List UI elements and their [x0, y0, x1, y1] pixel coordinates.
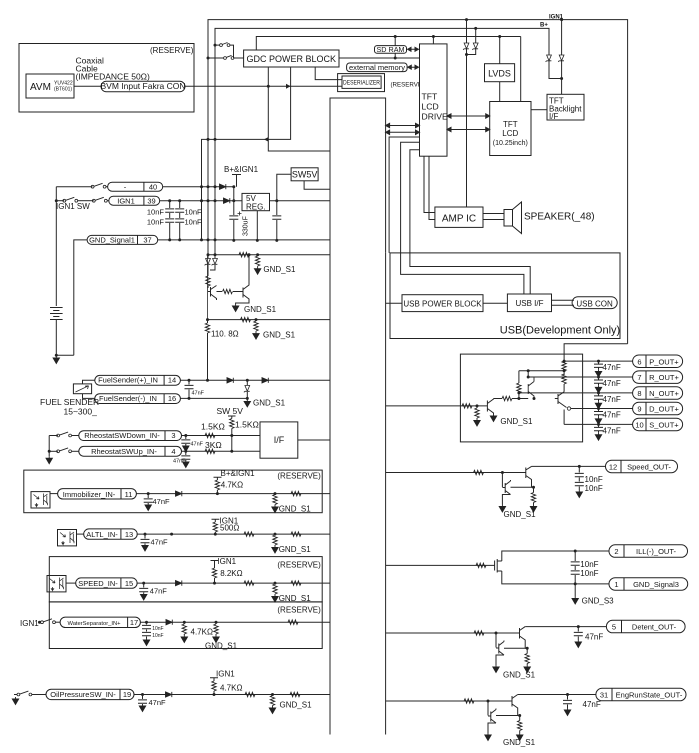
svg-text:19: 19: [123, 690, 131, 699]
pin 37 connector: [87, 235, 158, 244]
47nF cap between fuel wires: [188, 380, 190, 398]
svg-text:GDC POWER BLOCK: GDC POWER BLOCK: [247, 54, 337, 64]
battery to gnd: [56, 320, 74, 356]
LVDS box: [485, 64, 515, 82]
caps 10nF speed: [578, 465, 581, 468]
fuse B+ branch: [214, 44, 217, 47]
source wire down: [502, 571, 609, 584]
svg-text:(RESERVE): (RESERVE): [277, 606, 321, 615]
input wire: [386, 700, 512, 702]
pin 6 connector: [633, 355, 683, 368]
rails below gnd line: [208, 240, 215, 254]
filter caps column 2: [179, 201, 181, 240]
svg-text:IGN1: IGN1: [216, 670, 235, 679]
arrow busbox / TFT drive 2: [386, 130, 420, 134]
series resistor row17: [288, 620, 298, 624]
svg-text:AMP IC: AMP IC: [442, 214, 476, 225]
svg-text:IGN1: IGN1: [117, 196, 135, 205]
bus box right edge lower: [385, 253, 387, 735]
pin 5 connector: [606, 620, 685, 633]
SPEED wire: [137, 582, 330, 584]
TFT LCD DRIVE box: [420, 44, 448, 156]
4.7K resistor row17: [183, 621, 186, 624]
svg-text:SW5V: SW5V: [292, 170, 318, 180]
usb if to usb con double: [552, 300, 575, 305]
svg-text:B+&IGN1: B+&IGN1: [221, 469, 256, 478]
USB outer box: [390, 253, 620, 339]
ALTL wire: [137, 533, 330, 535]
wire TFT LCD to backlight: [531, 109, 547, 111]
output wire to pin 12: [532, 465, 606, 467]
svg-text:(IMPEDANCE 50Ω): (IMPEDANCE 50Ω): [76, 72, 151, 82]
caps 47nF S row: [597, 423, 600, 426]
svg-text:DRIVE: DRIVE: [422, 112, 449, 122]
svg-text:47nF: 47nF: [149, 698, 167, 707]
arrow TFT drive / TFT LCD 1: [447, 114, 490, 118]
water separator wire: [140, 621, 330, 623]
svg-text:external memory: external memory: [349, 63, 405, 72]
arrow busbox / TFT drive 1: [386, 123, 420, 127]
SD RAM stub to line: [394, 37, 396, 59]
svg-text:16: 16: [168, 394, 176, 403]
svg-text:TFT: TFT: [422, 92, 438, 102]
svg-text:FuelSender(+)_IN: FuelSender(+)_IN: [98, 376, 158, 385]
rheostat up wire: [182, 450, 261, 452]
cap 47nF detent: [577, 625, 580, 628]
series resistor row11: [291, 491, 301, 495]
pin 1 connector: [609, 578, 688, 591]
AVM box: [26, 74, 74, 98]
filter caps column 1: [169, 201, 171, 240]
I/F output wire: [298, 439, 330, 441]
pin 39 connector: [109, 196, 160, 205]
I/F box: [260, 422, 298, 458]
DESERIALIZER outer box: [338, 74, 385, 92]
GDC POWER BLOCK: [244, 50, 339, 67]
svg-text:47nF: 47nF: [585, 633, 603, 642]
switch row3: [49, 435, 58, 437]
svg-text:15~300_: 15~300_: [64, 407, 98, 417]
gnd stub row19: [271, 693, 274, 696]
PRND box: [460, 354, 582, 442]
transistor Q2 prnd: [528, 377, 534, 399]
47nF cap row15: [143, 583, 145, 593]
gnd signal1 wire: [158, 239, 330, 241]
svg-text:WaterSeparator_IN+: WaterSeparator_IN+: [67, 621, 121, 627]
input wire: [386, 564, 495, 566]
svg-text:Detent_OUT-: Detent_OUT-: [632, 623, 677, 632]
svg-text:ALTL_IN-: ALTL_IN-: [86, 530, 118, 539]
svg-text:GND_S1: GND_S1: [244, 305, 277, 314]
svg-text:(10.25inch): (10.25inch): [493, 140, 528, 147]
GDC gnd vertical 1: [268, 67, 330, 151]
arrow ext memory / TFT drive: [408, 65, 419, 69]
svg-text:37: 37: [143, 236, 151, 245]
resistor on line 319.6: [241, 317, 251, 321]
diode backlight IGN1: [558, 55, 564, 62]
svg-text:GND_S1: GND_S1: [500, 417, 533, 426]
diode on pin39 wire: [224, 198, 230, 203]
oil pressure wire: [134, 694, 330, 696]
svg-text:(BT601): (BT601): [54, 87, 72, 93]
series resistor row15a: [244, 581, 254, 585]
svg-text:3: 3: [171, 431, 175, 440]
diode backlight B+: [546, 55, 552, 62]
svg-text:47nF: 47nF: [603, 363, 621, 372]
svg-text:LCD: LCD: [502, 129, 518, 138]
svg-text:8.2KΩ: 8.2KΩ: [220, 569, 242, 578]
svg-text:N_OUT+: N_OUT+: [649, 389, 679, 398]
svg-text:3KΩ: 3KΩ: [205, 440, 222, 450]
svg-text:USB CON: USB CON: [576, 300, 613, 309]
svg-text:USB POWER BLOCK: USB POWER BLOCK: [403, 300, 482, 309]
svg-text:330uF: 330uF: [243, 216, 250, 236]
GDC to deserializer power: [315, 67, 342, 80]
svg-text:GND_S3: GND_S3: [582, 597, 615, 606]
svg-text:1.5KΩ: 1.5KΩ: [235, 420, 259, 430]
svg-text:SPEAKER(_48): SPEAKER(_48): [524, 212, 595, 223]
node on IGN1 rail: [560, 18, 563, 21]
svg-text:(RESERVE): (RESERVE): [150, 46, 194, 55]
external memory box: [347, 63, 408, 72]
series resistor row19a: [245, 692, 255, 696]
svg-text:FUEL SENDER: FUEL SENDER: [40, 397, 99, 407]
svg-text:47nF: 47nF: [191, 442, 204, 448]
svg-text:1: 1: [614, 580, 618, 589]
svg-text:GND_S1: GND_S1: [504, 510, 537, 519]
svg-text:REG.: REG.: [246, 203, 266, 212]
svg-text:4.7KΩ: 4.7KΩ: [221, 481, 243, 490]
svg-text:10nF: 10nF: [580, 569, 598, 578]
1.5K pullup resistor: [230, 419, 234, 429]
5V REG gnd stub: [256, 211, 258, 241]
transistor Q3 prnd: [555, 392, 567, 408]
switches gnd: [48, 436, 50, 457]
transistor Q1 engrun: [512, 695, 518, 716]
svg-text:DESERIALIZER: DESERIALIZER: [343, 81, 381, 87]
330uF cap: [233, 187, 235, 241]
svg-text:4: 4: [171, 447, 175, 456]
pin 2 connector: [609, 545, 688, 558]
input wire from bus: [386, 405, 488, 407]
TFT backlight box: [547, 94, 584, 120]
svg-text:47nF: 47nF: [583, 700, 601, 709]
input wire: [386, 632, 520, 634]
S row wire: [564, 423, 633, 425]
pin 8 connector: [633, 387, 683, 400]
svg-text:P_OUT+: P_OUT+: [649, 357, 679, 366]
caps 47nF P row: [597, 360, 600, 363]
diode on pin40 wire: [220, 184, 226, 189]
caps 47nF D row: [597, 407, 600, 410]
series resistor row15b: [291, 581, 301, 585]
collector line: [494, 398, 503, 400]
gnd stub on line 319.6: [255, 318, 258, 321]
wire B+ diode to backlight node: [549, 61, 562, 79]
switch row4: [49, 450, 58, 452]
svg-text:USB I/F: USB I/F: [515, 299, 543, 308]
GDC to TFT drive line: [339, 57, 420, 59]
feed from IGN1 rail: [564, 344, 628, 361]
P row wire: [564, 360, 633, 362]
arrow TFT drive / TFT LCD 2: [447, 127, 490, 131]
svg-text:10nF: 10nF: [585, 475, 603, 484]
SD RAM box: [375, 46, 407, 54]
svg-text:47nF: 47nF: [153, 497, 171, 506]
gnd stub on line 254.7: [256, 253, 259, 256]
line 319.6: [208, 319, 331, 321]
MOSFET: [495, 559, 502, 573]
svg-text:I/F: I/F: [549, 112, 558, 121]
pin39 wire to 5V REG: [160, 200, 242, 202]
AVM reserve outer box: [19, 44, 194, 113]
gnd stub row11: [274, 492, 277, 495]
line 254.7: [208, 254, 330, 256]
gnd stub row13: [274, 533, 277, 536]
transistor Q pair: [208, 286, 217, 301]
pulldown resistor row17: [215, 621, 218, 624]
svg-text:IGN1 SW: IGN1 SW: [56, 202, 90, 211]
cap 47nF engrun: [566, 693, 569, 696]
5V REG box: [242, 193, 270, 210]
speed reserve box: [49, 557, 322, 602]
gnd s3: [574, 584, 576, 597]
svg-text:10nF: 10nF: [585, 484, 603, 493]
diode row17: [166, 620, 172, 625]
svg-text:GND_S1: GND_S1: [205, 642, 238, 651]
svg-text:15: 15: [125, 579, 133, 588]
svg-text:47nF: 47nF: [150, 586, 168, 595]
fuel sender minus wire: [180, 397, 247, 399]
svg-text:4.7KΩ: 4.7KΩ: [191, 628, 213, 637]
svg-text:GND_Signal3: GND_Signal3: [633, 580, 679, 589]
optocoupler 11: [31, 492, 50, 508]
svg-text:IGN1: IGN1: [20, 619, 39, 628]
svg-text:GND_S1: GND_S1: [503, 671, 536, 680]
pin 12 connector: [606, 460, 678, 473]
SW5V box: [291, 168, 318, 181]
wire BVM to deserializer: [185, 85, 342, 87]
svg-text:Speed_OUT-: Speed_OUT-: [627, 463, 671, 472]
svg-text:40: 40: [149, 182, 157, 191]
svg-text:39: 39: [147, 196, 155, 205]
svg-text:RheostatSWDown_IN-: RheostatSWDown_IN-: [84, 431, 160, 440]
wire IGN1 to backlight diode: [561, 20, 563, 55]
svg-text:47nF: 47nF: [603, 395, 621, 404]
svg-text:14: 14: [168, 376, 176, 385]
pin 40 connector: [108, 182, 163, 191]
svg-text:1.5KΩ: 1.5KΩ: [201, 422, 225, 432]
arrow on BVM wire: [286, 84, 291, 89]
svg-text:TFT: TFT: [503, 120, 518, 129]
svg-text:RheostatSWUp_IN-: RheostatSWUp_IN-: [91, 447, 157, 456]
svg-text:SW 5V: SW 5V: [217, 406, 244, 416]
pin 19 connector: [46, 689, 134, 699]
BVM Input Fakra CON connector: [101, 81, 185, 91]
svg-text:LCD: LCD: [422, 102, 439, 112]
collector resistor chain: [563, 360, 565, 363]
arrow on reserve wire: [264, 137, 269, 142]
svg-text:(RESERVE): (RESERVE): [277, 472, 321, 481]
svg-text:D_OUT+: D_OUT+: [649, 405, 679, 414]
svg-text:B+: B+: [540, 23, 548, 29]
AMP to speaker wires: [483, 214, 504, 220]
svg-text:10nF: 10nF: [152, 626, 163, 632]
rheostat down wire: [182, 435, 261, 437]
svg-text:10nF: 10nF: [185, 218, 203, 227]
stub from label: [232, 175, 241, 187]
node backlight feed: [560, 77, 563, 80]
svg-text:31: 31: [600, 691, 608, 700]
zener to gnd on fuel line: [246, 380, 248, 385]
svg-text:7: 7: [637, 373, 641, 382]
switch row17: [39, 621, 42, 623]
caps row17: [146, 622, 148, 638]
svg-text:500Ω: 500Ω: [220, 524, 239, 533]
IGN1 SW row: [55, 199, 58, 202]
caps 47nF R row: [597, 376, 600, 379]
svg-text:R_OUT+: R_OUT+: [649, 373, 679, 382]
series resistor row13a: [244, 532, 254, 536]
caps 47nF N row: [597, 391, 600, 394]
3K resistor row4: [205, 449, 215, 453]
AMP feed diodes from rails: [465, 18, 468, 21]
svg-text:I/F: I/F: [274, 435, 285, 445]
svg-text:S_OUT+: S_OUT+: [649, 421, 679, 430]
output wire to pin 31: [518, 694, 596, 696]
R row wire: [528, 376, 632, 378]
svg-text:LVDS: LVDS: [488, 69, 511, 79]
base pulldown: [476, 406, 478, 408]
pin 31 connector: [596, 688, 686, 701]
pin 10 connector: [633, 418, 683, 431]
svg-text:GND_S1: GND_S1: [263, 331, 296, 340]
gnd signal1 left return: [74, 240, 87, 355]
svg-text:10nF: 10nF: [147, 218, 165, 227]
arrow SD RAM / TFT drive: [408, 47, 419, 51]
wire down to AMP IC: [466, 55, 468, 208]
SW5V bottom stub: [304, 181, 330, 189]
svg-text:10nF: 10nF: [152, 633, 163, 639]
rail3 from GDC top: [256, 37, 520, 51]
svg-text:GND_S1: GND_S1: [279, 505, 312, 514]
svg-text:IGN1: IGN1: [217, 557, 236, 566]
LVDS feed: [499, 37, 501, 64]
lower transistor Q2 engrun: [488, 701, 496, 733]
wire bus to usb power: [386, 302, 402, 304]
ground: [53, 356, 59, 364]
svg-text:OilPressureSW_IN-: OilPressureSW_IN-: [50, 690, 116, 699]
svg-text:9: 9: [637, 405, 641, 414]
svg-text:GND_S1: GND_S1: [279, 545, 312, 554]
svg-text:FuelSender(-)_IN: FuelSender(-)_IN: [99, 394, 157, 403]
speaker: [504, 210, 513, 227]
pin 11 connector: [50, 493, 58, 495]
svg-text:47nF: 47nF: [192, 391, 205, 397]
pin 15 connector: [66, 582, 76, 584]
svg-text:-: -: [124, 182, 127, 191]
output wire to pin 5: [525, 626, 606, 628]
5V REG output wire: [270, 200, 331, 202]
optocoupler 13: [58, 530, 77, 546]
diode row11: [176, 491, 182, 496]
wire into TFT backlight: [561, 61, 563, 94]
pin 13 connector: [77, 533, 84, 535]
transistor Q1 detent: [520, 627, 526, 649]
diode row15: [176, 581, 182, 586]
IGN1 rail top: [208, 20, 628, 344]
water separator reserve box: [49, 602, 322, 649]
svg-text:SD RAM: SD RAM: [377, 45, 405, 54]
svg-text:2: 2: [614, 547, 618, 556]
pin 4 connector: [79, 446, 182, 456]
47nF cap row3: [185, 436, 187, 445]
svg-text:(RESERVE): (RESERVE): [277, 561, 321, 570]
TFT LCD box: [490, 102, 531, 156]
svg-text:47nF: 47nF: [173, 459, 186, 465]
svg-text:17: 17: [130, 618, 138, 627]
svg-text:GND_S1: GND_S1: [263, 265, 296, 274]
lower transistor Q2 detent: [496, 633, 504, 665]
vertical to upper bias: [518, 393, 520, 399]
svg-text:Immobilizer_IN-: Immobilizer_IN-: [63, 490, 116, 499]
svg-text:47nF: 47nF: [603, 426, 621, 435]
lower transistor Q2 speed: [502, 473, 510, 505]
svg-text:GND_S1: GND_S1: [280, 701, 313, 710]
fuel sender unit: [73, 384, 91, 394]
bus box left edge: [330, 98, 386, 735]
diode row19: [166, 692, 172, 697]
AMP IC box: [435, 207, 483, 227]
series resistor row13b: [291, 532, 301, 536]
svg-text:GND_S1: GND_S1: [503, 738, 536, 747]
svg-text:EngRunState_OUT-: EngRunState_OUT-: [616, 691, 683, 700]
wire AVM to BVM con: [74, 85, 101, 87]
svg-text:110. 8Ω: 110. 8Ω: [211, 330, 239, 339]
resistor on line 254.7: [239, 253, 249, 257]
1.5K resistor row3: [205, 433, 215, 437]
zener pair below rails: [207, 255, 209, 258]
pin 9 connector: [633, 402, 683, 415]
S row drop: [563, 410, 565, 425]
wires TFT drive to USB: [389, 137, 419, 253]
USB I/F: [507, 294, 551, 312]
svg-text:B+&IGN1: B+&IGN1: [224, 165, 259, 174]
svg-text:6: 6: [637, 357, 641, 366]
svg-text:10: 10: [635, 421, 643, 430]
pin 17 connector: [60, 617, 140, 627]
USB CON: [572, 297, 617, 309]
USB POWER BLOCK: [402, 295, 483, 312]
switch row19: [14, 694, 17, 696]
svg-text:BVM Input Fakra CON: BVM Input Fakra CON: [100, 81, 185, 91]
rail3 stub TFT drive: [432, 37, 434, 44]
svg-text:AVM: AVM: [30, 82, 51, 93]
battery symbol: [50, 308, 63, 320]
svg-text:10nF: 10nF: [147, 208, 165, 217]
pin 7 connector: [633, 371, 683, 384]
pin 3 connector: [79, 431, 182, 441]
svg-text:47nF: 47nF: [603, 379, 621, 388]
SW5V left stub: [277, 174, 291, 200]
svg-text:USB(Development Only): USB(Development Only): [500, 325, 620, 337]
rail3 end to TFT LCD: [520, 37, 522, 102]
pin 14 connector: [95, 375, 181, 385]
optocoupler 15: [47, 576, 66, 592]
svg-text:10nF: 10nF: [580, 560, 598, 569]
pin 16 connector: [95, 394, 181, 404]
pin40 switch: [56, 186, 92, 188]
